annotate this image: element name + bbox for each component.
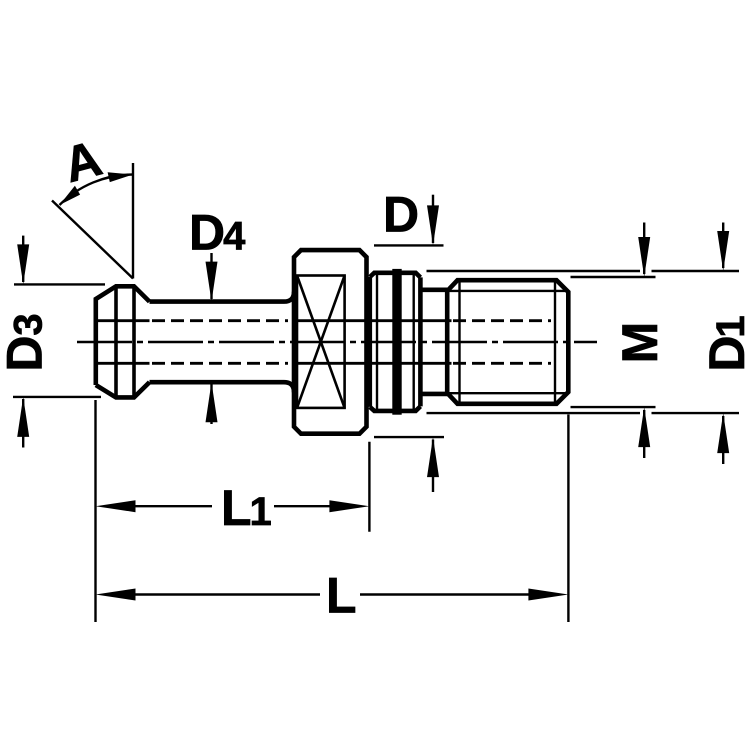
dim L1 arrow right [329,500,369,512]
dim L right extension line [567,415,569,623]
dim D4 arrow top [206,253,218,302]
head band line right [132,286,136,397]
dim D3 extension line bottom [13,396,101,398]
dim M arrow top [638,223,650,278]
groove box [297,276,345,408]
thread minor line top [447,290,568,292]
centerline [77,341,597,344]
dim D3 arrow top [17,236,29,285]
bore hidden line lower [96,362,551,365]
neck top edge [150,292,295,302]
dim D arrow top [427,195,439,246]
thread minor line bottom [447,392,568,394]
svg-text:D: D [383,187,419,243]
o-ring cyl chamfer line left [376,273,378,411]
undercut top edge [420,287,447,292]
dim A vertical extension line [132,163,134,279]
thread outline [447,280,568,404]
dim D1 arrow bottom [717,413,729,464]
o-ring band [392,269,401,415]
dim D3 arrow bottom [17,397,29,448]
bore hidden line upper [96,319,551,322]
flange outline [294,250,367,434]
o-ring cylinder right face [418,277,423,406]
dim L1 arrow left [96,500,136,512]
dim A arrowhead bottom [60,186,81,205]
dim D4 arrow bottom [206,382,218,424]
dim L left extension line [94,400,96,622]
groove box diagonal 1 [297,276,345,408]
groove box diagonal 2 [297,276,345,408]
dim M arrow bottom [638,407,650,458]
dim L arrow left [96,589,136,601]
dim L1 line [134,505,331,507]
dim A angled extension line [52,201,133,279]
dim L1 extension line right [368,442,370,532]
dim M extension line bottom [571,406,656,408]
dim D extension line bottom [374,436,444,438]
dim D1 extension line top [427,270,740,272]
undercut bottom edge [420,392,447,397]
head outline [96,286,150,397]
dim D1 arrow top [717,223,729,272]
dim D1 extension line bottom [427,412,740,414]
dim L line [134,593,530,595]
dim D3 extension line top [14,283,105,285]
svg-text:D3: D3 [0,313,53,371]
thread chamfer line left [458,280,460,404]
o-ring cyl chamfer line right [413,273,415,411]
head band line left [114,286,118,397]
dim A arc [60,175,134,206]
dim A arrowhead top [108,172,133,182]
dim L arrow right [528,589,568,601]
dim D arrow bottom [427,437,439,492]
svg-text:M: M [612,322,668,364]
o-ring cylinder outline [370,273,421,411]
neck bottom edge [150,382,295,392]
dim M extension line top [571,276,656,278]
thread chamfer line right [554,280,556,404]
o-ring cylinder left face [367,277,372,407]
dim D extension line top [374,244,444,246]
svg-text:L: L [326,568,357,624]
